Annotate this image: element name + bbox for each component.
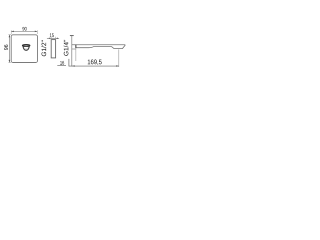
side view: wall plate section [51,40,55,58]
dim 96 extension ticks [8,35,11,63]
dim line 169,5 [69,65,119,67]
dim line 96 [8,35,10,63]
wall face line [71,36,73,66]
dim text 96 (rotated) [4,45,8,50]
dim line 90 [11,30,37,32]
dim text 16 [60,61,64,65]
technical drawing: wall-mounted basin spout, front + side views [0,0,128,96]
dim text 169,5 [88,60,102,66]
dim 16 leader underline [57,65,66,67]
spout outlet icon [22,45,29,51]
dim 90 extension ticks [11,30,37,34]
flange extension line [75,48,77,61]
spout flange bottom [72,48,76,50]
spout top line [72,44,125,46]
dim text G1/4" (rotated) [64,40,69,56]
wall line top cap [70,35,74,37]
spout tip [112,45,126,49]
dim text 90 [22,27,26,31]
spout flange edge [75,45,77,48]
spout underside [76,47,112,48]
dim text 15 [50,33,54,37]
dim text G1/2" (rotated) [41,40,46,56]
dim 169,5 right extension line [118,49,120,67]
dim 16 extension tick [68,59,70,67]
dim 15 extension ticks [51,37,55,40]
front view: square wall plate [11,35,37,63]
dim line 15 [47,37,59,39]
